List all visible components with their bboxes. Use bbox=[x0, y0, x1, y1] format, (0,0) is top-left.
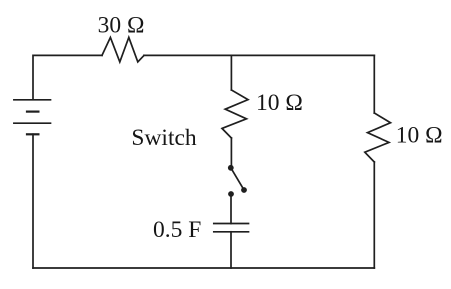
resistor R1 30ohm zigzag bbox=[102, 37, 144, 62]
wire bottom rail bbox=[33, 267, 374, 269]
capacitor C1 top plate bbox=[214, 223, 249, 225]
wire capacitor to bottom rail bbox=[230, 232, 232, 268]
battery B1 long plate top bbox=[14, 99, 51, 101]
wire left branch bottom bbox=[32, 134, 34, 268]
battery B1 short plate 1 bbox=[27, 110, 38, 112]
battery B1 short plate 2 bbox=[27, 133, 38, 135]
svg-text:30 Ω: 30 Ω bbox=[98, 12, 145, 38]
capacitor C1 bottom plate bbox=[214, 231, 249, 233]
svg-text:10 Ω: 10 Ω bbox=[256, 90, 303, 116]
wire top rail right segment bbox=[144, 54, 374, 56]
switch terminal dot C bbox=[228, 191, 234, 197]
svg-text:10 Ω: 10 Ω bbox=[396, 123, 443, 149]
wire middle branch top stub bbox=[230, 55, 232, 90]
svg-text:0.5 F: 0.5 F bbox=[153, 217, 201, 243]
wire right branch top bbox=[373, 55, 375, 113]
svg-text:Switch: Switch bbox=[131, 125, 197, 151]
resistor R3 10ohm right zigzag bbox=[365, 113, 391, 162]
switch pole dot A bbox=[228, 165, 234, 171]
resistor R2 10ohm middle zigzag bbox=[222, 90, 248, 138]
wire right branch bottom bbox=[373, 162, 375, 268]
wire switch to capacitor bbox=[230, 194, 232, 224]
switch blade bbox=[231, 168, 244, 190]
wire top rail left segment bbox=[33, 55, 102, 99]
switch blade dot B bbox=[241, 187, 247, 193]
battery B1 long plate bottom bbox=[14, 122, 51, 124]
wire resistor to switch bbox=[230, 138, 232, 168]
